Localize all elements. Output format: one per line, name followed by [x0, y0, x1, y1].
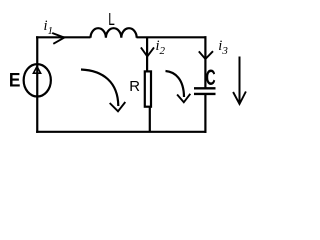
source E circle: [24, 64, 51, 96]
wire right branch lower: [204, 94, 206, 133]
inductor L: [91, 28, 137, 38]
wire middle branch lower: [149, 107, 151, 132]
arrow far right: [233, 57, 246, 105]
mesh current arrow left loop: [81, 70, 125, 112]
svg-text:C: C: [206, 65, 216, 90]
arrow i1: [52, 33, 64, 44]
arrow i3: [199, 51, 213, 59]
wire top left segment: [36, 36, 91, 38]
mesh current arrow right loop: [166, 71, 191, 102]
wire middle branch upper: [146, 37, 148, 71]
svg-text:E: E: [9, 68, 21, 90]
wire right branch upper: [204, 36, 206, 88]
capacitor C: [194, 88, 216, 94]
wire bottom: [36, 131, 206, 133]
svg-text:L: L: [108, 10, 115, 30]
resistor R: [145, 71, 151, 106]
arrow i2: [141, 47, 154, 56]
wire left vertical: [36, 36, 38, 133]
svg-text:R: R: [129, 79, 140, 95]
wire top right segment: [137, 36, 207, 38]
